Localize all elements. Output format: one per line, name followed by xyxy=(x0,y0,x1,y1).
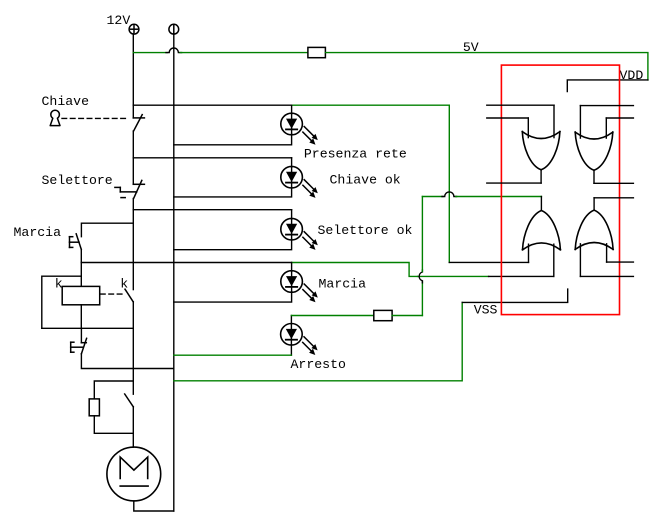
resistor R LED5 xyxy=(374,310,392,320)
wire row2 top xyxy=(133,157,291,159)
relay coil k xyxy=(62,286,99,304)
wire hot rail top segment xyxy=(132,34,134,118)
wire Marcia net green 2 xyxy=(418,275,489,277)
wire hot rail seg D xyxy=(132,302,134,394)
wire motor bottom xyxy=(134,501,174,511)
svg-text:Marcia: Marcia xyxy=(14,225,62,240)
resistor R motor xyxy=(89,399,99,416)
svg-text:VDD: VDD xyxy=(620,68,644,83)
wire row3 bottom xyxy=(174,239,292,250)
wire VSS black xyxy=(462,289,568,302)
wire 5V green left xyxy=(133,52,167,54)
svg-text:12V: 12V xyxy=(107,13,131,28)
LED D3 Selettore ok xyxy=(281,218,318,250)
dashed link key to switch xyxy=(62,117,129,119)
red box IC xyxy=(501,65,619,315)
wire Arresto upper lead xyxy=(80,328,82,342)
svg-text:VSS: VSS xyxy=(474,303,498,318)
svg-text:Selettore: Selettore xyxy=(42,173,113,188)
wire row2 LED stub xyxy=(291,158,293,167)
contact k blade xyxy=(125,289,133,302)
wire hot rail seg F xyxy=(132,407,134,447)
terminal P2 (circle with vertical bar) xyxy=(169,24,179,34)
wire 5V green mid xyxy=(180,52,308,54)
wire Arresto bottom to neutral rail xyxy=(81,354,173,369)
LED D2 Chiave ok xyxy=(281,166,318,198)
gate U1C (bottom-left, points up) xyxy=(523,211,561,250)
switch Chiave (seat + blade) xyxy=(133,115,144,131)
wire green riser x=422 upper xyxy=(421,197,423,272)
switch Arresto NC pushbutton xyxy=(71,338,87,354)
hop riser over Marcia net xyxy=(419,270,422,283)
svg-text:5V: 5V xyxy=(463,40,479,55)
gate U1D (bottom-right, points up) xyxy=(575,210,613,249)
hop 5V over neutral rail xyxy=(166,48,182,53)
wire Marcia net green xyxy=(292,263,418,277)
hop gate3 output over riser 449 xyxy=(442,192,457,197)
wire Marcia net black xyxy=(81,262,291,264)
wire coil top lead xyxy=(80,263,82,287)
svg-text:Chiave ok: Chiave ok xyxy=(330,172,401,187)
wire bypass bracket xyxy=(42,276,82,328)
wire green riser x=422 lower xyxy=(421,281,423,315)
switch shunt blade xyxy=(125,394,134,407)
gate U1B (top-right, points down) xyxy=(575,132,613,170)
LED D5 Arresto xyxy=(281,316,318,356)
dashed link coil to contact xyxy=(101,293,125,295)
wire row5 green resistor to riser xyxy=(392,315,422,317)
wire green gate3 output right xyxy=(456,196,542,198)
wire Marcia pin link black xyxy=(489,275,554,277)
wire 5V green right xyxy=(325,53,648,80)
wire resistor branch bottom xyxy=(94,416,133,434)
svg-text:Chiave: Chiave xyxy=(42,94,90,109)
wire row1 bottom xyxy=(174,134,292,145)
wire Marcia button lower lead xyxy=(80,249,82,262)
wire hot rail seg B xyxy=(132,131,134,184)
wire row2 bottom xyxy=(174,187,292,197)
wire VSS green horizontal xyxy=(174,302,462,380)
gate U1A (top-left, points down) xyxy=(522,132,560,170)
svg-text:Selettore ok: Selettore ok xyxy=(318,223,413,238)
wire green gate3 output left xyxy=(422,196,443,198)
switch Selettore (seat + blade + actuator) xyxy=(115,180,144,198)
wire junction line xyxy=(42,327,134,329)
LED D4 Marcia xyxy=(281,263,318,303)
wire row1 LED stubs xyxy=(291,105,293,114)
wire coil bottom lead xyxy=(80,305,82,329)
wire resistor branch top xyxy=(94,381,133,399)
svg-text:Marcia: Marcia xyxy=(319,277,367,292)
wire row5 green to resistor xyxy=(291,315,373,317)
wire neutral rail (full) xyxy=(173,34,175,511)
wire hot rail seg C xyxy=(132,199,134,290)
wire row3 top xyxy=(133,209,291,211)
key symbol xyxy=(50,110,60,125)
resistor R 5V xyxy=(308,47,326,57)
wire VDD black xyxy=(567,80,648,92)
svg-text:Presenza rete: Presenza rete xyxy=(304,147,407,162)
wire row1 pin link black xyxy=(449,261,528,263)
wire row3 LED stub xyxy=(291,210,293,220)
svg-text:Arresto: Arresto xyxy=(291,357,346,372)
wire Marcia branch top xyxy=(81,223,133,237)
motor M1 xyxy=(107,447,161,501)
wire row1 green to gates xyxy=(292,105,450,262)
terminal P1 12V (plus circle) xyxy=(129,24,139,34)
wire row4 bottom xyxy=(174,292,292,302)
wire row5 bottom green xyxy=(174,354,292,356)
wire row1 top black xyxy=(133,104,291,106)
LED D1 Presenza rete xyxy=(281,113,318,145)
switch Marcia NO pushbutton xyxy=(70,234,82,250)
